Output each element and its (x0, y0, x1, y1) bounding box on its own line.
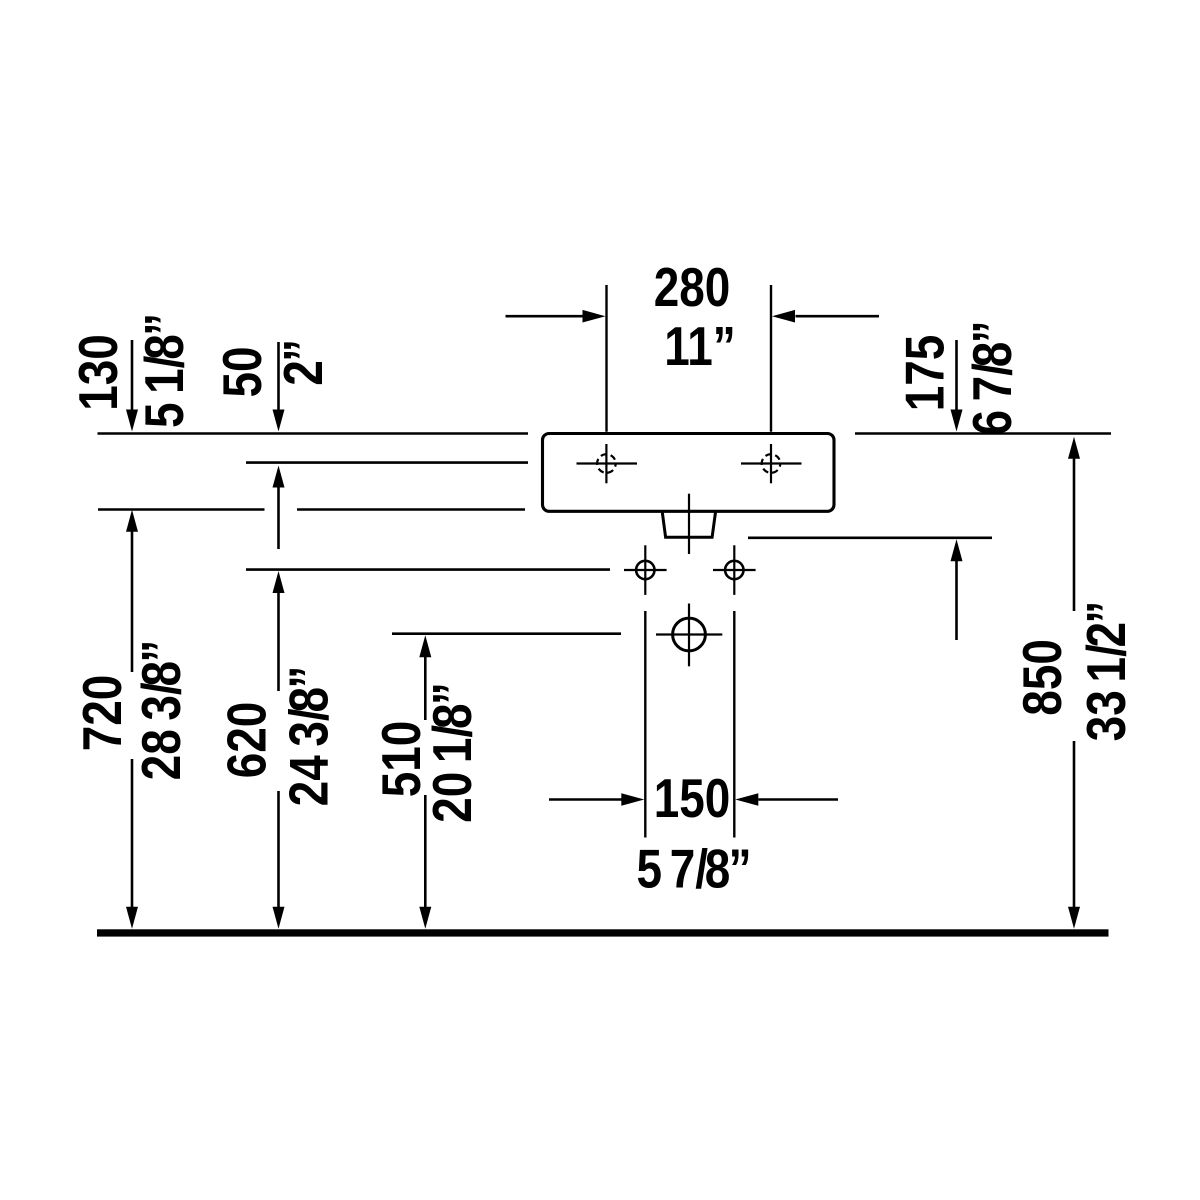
svg-text:150: 150 (654, 767, 731, 829)
drain hole circle (656, 604, 722, 667)
svg-text:175: 175 (894, 335, 956, 412)
dimension 150 left arrow (549, 793, 644, 806)
dim line 50/620 at x=278.5 (273, 342, 285, 929)
dim line 510 at x=425.3 (419, 635, 431, 929)
svg-text:2”: 2” (272, 339, 334, 386)
mounting hole left (624, 545, 667, 595)
mounting hole right (713, 545, 756, 595)
dim line 130/720 at x=132 (126, 340, 138, 929)
svg-text:620: 620 (216, 702, 278, 779)
svg-text:50: 50 (211, 346, 273, 397)
svg-text:20 1/8”: 20 1/8” (421, 682, 483, 823)
svg-text:5 7/8”: 5 7/8” (636, 838, 751, 900)
svg-text:850: 850 (1011, 639, 1073, 716)
svg-text:24 3/8”: 24 3/8” (278, 666, 340, 807)
svg-text:28 3/8”: 28 3/8” (130, 640, 192, 781)
svg-text:720: 720 (71, 675, 133, 752)
dimension 280 extension lines (607, 285, 772, 432)
wire rim extension line left (98, 432, 529, 435)
drain trapezoid (662, 512, 715, 538)
sink body outline (543, 434, 835, 512)
svg-text:130: 130 (67, 334, 129, 411)
svg-text:6 7/8”: 6 7/8” (961, 320, 1023, 435)
faucet hole right (741, 444, 802, 483)
svg-text:280: 280 (654, 256, 731, 318)
svg-text:11”: 11” (664, 315, 736, 377)
dimension 280 left arrow (506, 310, 606, 323)
drain centerline (688, 494, 690, 554)
faucet hole left (577, 444, 638, 483)
svg-text:5 1/8”: 5 1/8” (133, 313, 195, 428)
wire rim extension line right (855, 432, 1111, 435)
dimension 150 right arrow (735, 793, 838, 806)
wire small-holes level line (246, 568, 610, 571)
floor line (97, 929, 1109, 936)
dimension 150 extension lines (645, 611, 734, 838)
svg-text:33 1/2”: 33 1/2” (1075, 601, 1137, 742)
dim line 850 at x=1074 (1068, 437, 1080, 929)
wire right mid extension line (748, 536, 992, 539)
wire tap-hole level line (246, 461, 528, 464)
dim line 175 at x=956.5 (951, 340, 963, 640)
wire sink bottom extension line (98, 508, 265, 511)
dimension 280 right arrow (772, 310, 879, 323)
wire drain level line (392, 632, 621, 635)
